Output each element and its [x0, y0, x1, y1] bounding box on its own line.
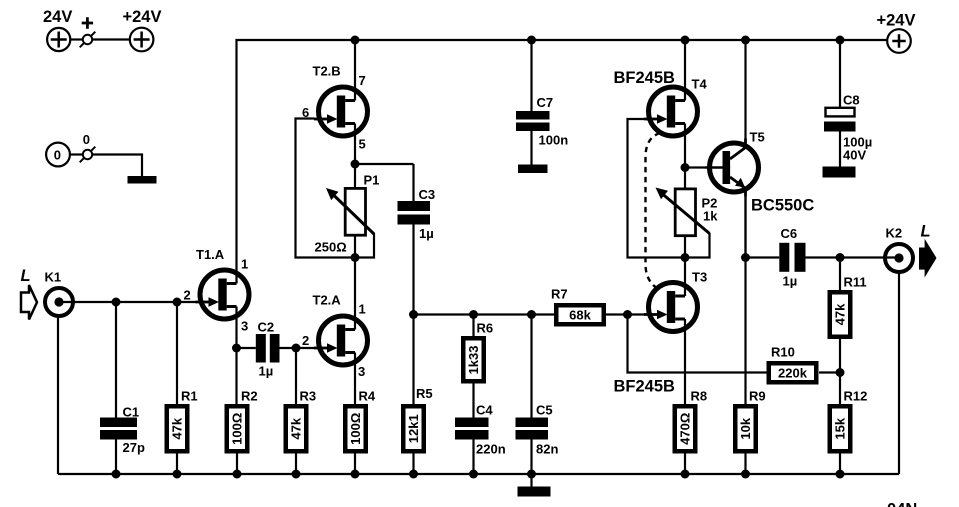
svg-text:15k: 15k: [832, 417, 847, 439]
capacitor C5: [516, 418, 549, 440]
wire: R12 to 0V rail: [839, 454, 841, 475]
terminal +24V (left): circle with plus: [130, 28, 154, 52]
transistor T5 (BJT BC550C): [705, 139, 759, 197]
wire: +24V rail to C8: [839, 40, 841, 108]
junction 0V rail x296: [292, 470, 301, 479]
terminal 24V: circle with plus: [47, 28, 70, 51]
resistor R6: [463, 338, 484, 381]
resistor R4: [345, 406, 366, 451]
svg-text:K1: K1: [45, 270, 62, 285]
resistor R8: [675, 406, 696, 451]
svg-text:C5: C5: [536, 403, 553, 418]
wire: solder pin to +24V terminal: [92, 38, 130, 40]
junction R10/R11/R12: [836, 368, 845, 377]
svg-text:7: 7: [359, 73, 366, 88]
svg-text:C6: C6: [781, 226, 798, 241]
wire: C8 to ground: [839, 132, 841, 168]
svg-text:+24V: +24V: [123, 8, 162, 26]
svg-text:P1: P1: [364, 173, 380, 188]
resistor R3: [286, 406, 307, 451]
wire: R4 to 0V rail: [354, 454, 356, 475]
wire: R11 to R10/R12 node: [839, 339, 841, 373]
svg-text:BF245B: BF245B: [614, 378, 676, 396]
wire: node Z to T2.A drain: [354, 258, 356, 312]
wire: C3 to node Y: [412, 225, 414, 315]
transistor T1.A (JFET): [196, 266, 250, 324]
wire: node Z to T2.B gate (feedback): [296, 119, 356, 258]
P2 wiper arrow: [663, 194, 710, 234]
svg-text:47k: 47k: [833, 303, 848, 325]
svg-text:R8: R8: [691, 389, 708, 404]
svg-text:6: 6: [302, 105, 309, 120]
terminal 0: circle with 0 glyph: [46, 143, 70, 167]
solder pin (24V line): small circle with diagonal ticks: [80, 32, 96, 48]
svg-text:0: 0: [54, 148, 61, 163]
junction node Y R6: [469, 310, 478, 319]
wire: T2.A source to R4: [354, 370, 356, 405]
wire: 0 pin to ground (thick): [92, 155, 142, 177]
svg-text:T2.B: T2.B: [313, 64, 341, 79]
svg-text:+24V: +24V: [877, 12, 916, 30]
wire: input node to R1: [176, 302, 178, 404]
input arrow (open): [21, 285, 37, 320]
transistor T2.B (JFET): [314, 83, 368, 141]
junction node Y C3/R5: [409, 310, 418, 319]
capacitor C8 (electrolytic): [824, 108, 856, 132]
svg-text:24V: 24V: [43, 8, 72, 26]
wire: R9 to 0V rail: [744, 454, 746, 475]
wire: T2.B source to node X: [354, 141, 356, 165]
junction 0V rail x531.5: [527, 470, 536, 479]
wire: C7 to ground: [530, 131, 532, 165]
junction 0V rail x745.5: [741, 470, 750, 479]
svg-text:R2: R2: [241, 389, 258, 404]
wire: P2 wiper return: [685, 233, 710, 258]
wire: T4 source to T5 base node: [684, 141, 686, 168]
transistor T3 (JFET BF245B): [644, 278, 698, 336]
svg-text:1: 1: [359, 302, 366, 317]
svg-text:R6: R6: [477, 321, 494, 336]
svg-text:3: 3: [358, 364, 365, 379]
svg-text:R3: R3: [300, 389, 317, 404]
wire: +24V rail to T2.B drain: [354, 40, 356, 83]
svg-text:C8: C8: [843, 93, 860, 108]
connector K1: [45, 288, 73, 316]
svg-text:100Ω: 100Ω: [229, 413, 244, 445]
svg-text:04N: 04N: [887, 500, 917, 507]
resistor R11: [830, 292, 851, 337]
svg-text:5: 5: [359, 137, 366, 152]
wire: T3 gate node down and to R10: [628, 315, 767, 373]
svg-text:R9: R9: [749, 389, 766, 404]
wire: K1 to T1.A gate: [61, 301, 197, 303]
wire: +24V rail to T5 collector: [744, 40, 746, 139]
junction C2/R3/T2.A gate: [292, 344, 301, 353]
svg-text:470Ω: 470Ω: [677, 413, 692, 445]
ground (below C5): [530, 474, 532, 487]
svg-text:K2: K2: [886, 226, 903, 241]
ground (0 terminal): [128, 176, 157, 184]
transistor T2.A (JFET): [314, 312, 368, 370]
wire: R5 to 0V rail: [412, 454, 414, 475]
wire: T5 emitter to output network: [744, 197, 746, 258]
wire: T1.A source to R2 and C2: [235, 324, 237, 405]
capacitor C3: [398, 201, 431, 225]
wire: node Z to T3 drain: [684, 258, 686, 279]
wire: T3 drain node to T4 gate (feedback): [628, 119, 686, 258]
wire: R6 to C4: [472, 384, 474, 419]
junction 0V rail x355: [351, 470, 360, 479]
wire: P2 to T3 drain node: [684, 236, 686, 258]
svg-text:2: 2: [184, 288, 191, 303]
junction 0V rail x685: [681, 470, 690, 479]
junction 0V rail x473.5: [469, 470, 478, 479]
svg-text:R5: R5: [416, 386, 433, 401]
svg-text:T2.A: T2.A: [313, 293, 342, 308]
junction T3 drain/P2/T4 gate: [681, 253, 690, 262]
svg-text:220k: 220k: [778, 365, 808, 380]
svg-text:250Ω: 250Ω: [315, 240, 347, 255]
junction node Y C5: [527, 310, 536, 319]
junction 0V rail x840: [836, 470, 845, 479]
wire: C1 to 0V rail: [115, 440, 117, 475]
junction top rail x840: [836, 36, 845, 45]
wire: node Y to R6: [472, 315, 474, 337]
resistor R10: [769, 363, 817, 382]
wire: R7 to T3 gate node: [606, 313, 645, 315]
svg-text:R12: R12: [844, 389, 868, 404]
svg-text:1µ: 1µ: [419, 226, 434, 241]
junction 0V rail x237: [233, 470, 242, 479]
resistor R1: [167, 406, 188, 451]
solder pin (0 line): small circle with diagonal ticks: [80, 147, 96, 163]
wire: T3 source to R8: [684, 336, 686, 404]
wire: R10/R11 node to R12: [839, 373, 841, 405]
svg-text:3: 3: [241, 319, 248, 334]
svg-text:C7: C7: [537, 95, 554, 110]
transistor T4 (JFET BF245B): [644, 83, 698, 141]
wire: R2 to 0V rail: [236, 454, 238, 475]
svg-text:R7: R7: [551, 287, 568, 302]
wire: R1 to 0V rail: [176, 454, 178, 475]
svg-text:T4: T4: [692, 77, 708, 92]
wire: T2.A gate node to R3: [295, 348, 297, 404]
node +24V rail (top supply rail): [237, 40, 888, 266]
svg-text:47k: 47k: [169, 417, 184, 439]
wire: +24V rail to T4 drain: [684, 40, 686, 83]
potentiometer P1: [345, 188, 365, 235]
junction output node R11: [836, 253, 845, 262]
svg-text:40V: 40V: [843, 148, 866, 163]
wire: node Y to C5: [530, 315, 532, 418]
svg-text:C2: C2: [258, 320, 275, 335]
wire: T1.A source node to C2: [237, 347, 256, 349]
wire: node Y to R7: [414, 313, 555, 315]
svg-text:10k: 10k: [738, 417, 753, 439]
wire: input node to C1: [115, 302, 117, 418]
dashed pair link T4-T3 (dual JFET): [646, 133, 661, 289]
junction top rail x355: [351, 36, 360, 45]
svg-text:47k: 47k: [288, 417, 303, 439]
label + (above solder pin): [82, 17, 93, 28]
junction T3 gate: [623, 310, 632, 319]
svg-text:68k: 68k: [569, 307, 591, 322]
junction 0V rail x177: [173, 470, 182, 479]
capacitor C6: [779, 243, 805, 272]
capacitor C1: [100, 418, 137, 440]
svg-text:BC550C: BC550C: [751, 197, 814, 215]
svg-text:220n: 220n: [476, 442, 506, 457]
resistor R12: [830, 406, 851, 451]
wire: P1 wiper return: [355, 233, 374, 258]
wire: C2 to T2.A gate node: [280, 347, 315, 349]
ground (below C8): [823, 167, 856, 178]
wire: P1 to node Z: [354, 235, 356, 258]
junction input node R1: [173, 298, 182, 307]
svg-text:C1: C1: [123, 405, 140, 420]
svg-text:L: L: [921, 223, 931, 241]
wire: +24V rail to C7: [530, 40, 532, 111]
capacitor C4: [455, 418, 489, 440]
svg-text:R4: R4: [359, 389, 376, 404]
svg-text:1k: 1k: [703, 209, 718, 224]
wire: node Y to R5: [412, 315, 414, 405]
svg-text:L: L: [21, 267, 31, 285]
svg-text:1k33: 1k33: [466, 346, 481, 375]
wire: node X to P1: [354, 164, 356, 188]
wire: T5 emitter node to C6: [746, 256, 780, 258]
potentiometer P2: [675, 189, 695, 236]
svg-text:1µ: 1µ: [259, 364, 274, 379]
svg-text:82n: 82n: [536, 442, 558, 457]
svg-text:100Ω: 100Ω: [348, 413, 363, 445]
svg-text:C3: C3: [419, 187, 436, 202]
wire: C5 to 0V rail: [530, 440, 532, 475]
connector K2: [885, 244, 913, 272]
junction T5 emitter/C6/R9: [741, 253, 750, 262]
wire: C6 to output node and K2: [806, 256, 897, 258]
wire: R8 to 0V rail: [684, 454, 686, 475]
junction 0V rail x116: [112, 470, 121, 479]
svg-text:1µ: 1µ: [783, 274, 798, 289]
junction top rail x685: [681, 36, 690, 45]
svg-text:27p: 27p: [123, 440, 145, 455]
svg-text:T1.A: T1.A: [196, 247, 225, 262]
svg-text:BF245B: BF245B: [614, 69, 676, 87]
svg-text:1: 1: [241, 257, 248, 272]
wire: C4 to 0V rail: [472, 440, 474, 475]
svg-text:100n: 100n: [539, 133, 569, 148]
svg-text:C4: C4: [476, 403, 493, 418]
junction top rail x745.5: [741, 36, 750, 45]
svg-text:R11: R11: [844, 275, 867, 290]
wire: 24V terminal to solder pin: [71, 38, 83, 40]
resistor R9: [735, 406, 756, 451]
svg-text:0: 0: [83, 132, 90, 147]
ground (below C7): [518, 165, 548, 174]
output arrow (filled): [919, 239, 937, 278]
junction node X: [351, 160, 360, 169]
wire: output node to R11: [839, 258, 841, 291]
wire: T4 source node to T5 base: [685, 166, 706, 168]
junction input node C1: [112, 298, 121, 307]
junction 0V rail x413.5: [409, 470, 418, 479]
junction T4 source/P2/T5 base: [681, 163, 690, 172]
capacitor C2: [256, 334, 280, 363]
terminal +24V (top right): circle with plus: [887, 29, 911, 53]
wire: R3 to 0V rail: [295, 454, 297, 475]
junction T1.A source/C2: [232, 344, 241, 353]
P1 wiper arrow: [333, 195, 374, 235]
resistor R2: [227, 406, 248, 451]
wire: T4 source node to P2: [684, 168, 686, 189]
svg-text:T3: T3: [692, 270, 707, 285]
wire: R10 to R11/R12 node: [819, 371, 840, 373]
svg-text:12k1: 12k1: [406, 414, 421, 443]
svg-text:R10: R10: [771, 345, 795, 360]
junction node Z (P1 bottom): [351, 253, 360, 262]
resistor R7: [556, 305, 604, 324]
wire: node X to C3: [355, 164, 414, 201]
svg-text:T5: T5: [750, 130, 765, 145]
junction top rail x531.5: [527, 36, 536, 45]
resistor R5: [403, 406, 424, 451]
capacitor C7: [516, 111, 550, 131]
svg-text:R1: R1: [181, 389, 198, 404]
node 0V bottom rail: [58, 273, 899, 475]
svg-text:2: 2: [302, 333, 309, 348]
wire: 0 terminal to solder pin: [70, 153, 83, 155]
wire: T5 emitter node to R9: [744, 197, 746, 405]
